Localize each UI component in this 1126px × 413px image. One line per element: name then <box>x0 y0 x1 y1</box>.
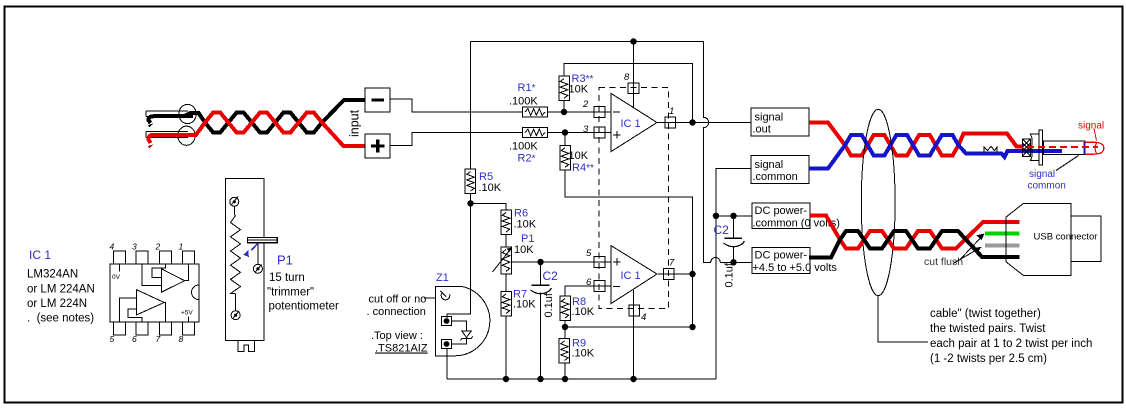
svg-text:or LM 224AN: or LM 224AN <box>27 284 95 296</box>
wire ground rail <box>447 378 716 380</box>
cable ellipse <box>861 109 895 295</box>
wire R6 to P1 <box>505 235 507 248</box>
junction R8 / R9 node <box>562 324 568 330</box>
audio plug flange <box>1039 130 1043 165</box>
svg-text:LM324AN: LM324AN <box>27 269 78 281</box>
svg-text:4: 4 <box>641 312 646 323</box>
wire P1 wiper to pin 5 <box>511 261 612 263</box>
wire top supply rail <box>471 41 704 43</box>
P1 wiper blue arrow <box>252 244 258 251</box>
svg-text:7: 7 <box>669 258 675 269</box>
svg-text:8: 8 <box>179 334 184 344</box>
junction pin 3 / R4 node <box>562 129 568 135</box>
DC power common box <box>752 203 810 229</box>
signal twisted pair blue wire <box>809 135 1062 169</box>
svg-text:the twisted pairs. Twist: the twisted pairs. Twist <box>930 323 1046 335</box>
svg-text:signal: signal <box>755 159 784 171</box>
svg-text:. connection: . connection <box>367 306 426 318</box>
svg-text:.100K: .100K <box>509 96 538 108</box>
svg-text:DC power-: DC power- <box>755 205 808 217</box>
USB connector plug <box>1071 216 1101 262</box>
wire pin 8 stem <box>633 42 635 108</box>
pin 4 <box>629 305 640 316</box>
junction ground at pin 4 <box>630 376 636 382</box>
pin 3 <box>594 127 605 138</box>
svg-text:R2*: R2* <box>518 153 536 165</box>
svg-text:C2: C2 <box>543 269 559 283</box>
svg-text:0.1uf: 0.1uf <box>724 262 736 287</box>
Z1 internal zener diode <box>452 321 467 344</box>
svg-text:10K: 10K <box>514 244 534 256</box>
svg-text:15 turn: 15 turn <box>269 272 305 284</box>
wire R1 to pin 2 <box>548 111 612 113</box>
svg-text:signal: signal <box>1078 121 1104 132</box>
svg-text:signal: signal <box>1029 169 1055 180</box>
resistor R5 <box>465 169 476 194</box>
input terminal minus box <box>365 88 390 112</box>
Z1 middle pin <box>444 318 450 324</box>
P1 trimmer drawing <box>225 179 263 352</box>
wire rail to R5 <box>470 42 472 170</box>
svg-text:6: 6 <box>586 277 592 288</box>
USB green wire <box>985 232 1020 236</box>
input probe red <box>146 126 195 148</box>
potentiometer P1 schematic <box>501 247 512 274</box>
signal common box <box>751 156 809 184</box>
op-amp U1B <box>611 246 657 304</box>
resistor R3 <box>559 76 570 101</box>
op-amp U1A <box>611 93 657 151</box>
DC twisted pair red wire <box>810 216 1020 249</box>
wire R8 to R9 <box>564 321 566 339</box>
svg-text:potentiometer: potentiometer <box>269 301 339 313</box>
wire P1 to R7 <box>505 274 507 292</box>
DC twisted pair black wire <box>809 231 1020 258</box>
svg-text:10K: 10K <box>569 150 589 162</box>
audio plug barrel <box>1044 141 1086 155</box>
svg-text:0V: 0V <box>112 274 121 281</box>
resistor R6 <box>501 210 512 235</box>
svg-text:.10K: .10K <box>572 306 595 318</box>
wire pin 6 to R8 <box>565 286 611 296</box>
svg-text:cut flush: cut flush <box>924 256 963 268</box>
wire Z1 bottom pin to rail <box>446 348 448 379</box>
svg-text:DC power-: DC power- <box>755 250 808 262</box>
svg-text:each pair at 1 to 2 twist per: each pair at 1 to 2 twist per inch <box>930 338 1092 350</box>
svg-text:"trimmer": "trimmer" <box>267 287 314 299</box>
wire DC power common <box>716 215 752 217</box>
wire R4 feedback to lower output <box>565 170 693 327</box>
svg-text:IC 1: IC 1 <box>621 118 641 130</box>
svg-text:R1*: R1* <box>518 82 536 94</box>
wire R5 junction <box>471 194 507 211</box>
svg-text:or LM 224N: or LM 224N <box>27 298 87 310</box>
svg-text:IC 1: IC 1 <box>29 248 51 262</box>
USB gray wire <box>985 244 1020 248</box>
svg-text:C2: C2 <box>714 223 730 237</box>
svg-text:6: 6 <box>132 334 137 344</box>
svg-text:.10K: .10K <box>479 182 502 194</box>
svg-text:.common: .common <box>753 171 798 183</box>
svg-text:4: 4 <box>110 242 115 252</box>
wire signal common to ground <box>716 169 751 380</box>
cable leader line <box>878 296 928 342</box>
wire op-amp output to signal out <box>657 122 751 124</box>
twisted pair input black wire <box>184 100 365 133</box>
svg-text:3: 3 <box>132 242 137 252</box>
svg-text:signal: signal <box>755 112 784 124</box>
svg-text:3: 3 <box>583 124 589 135</box>
wire R2 to pin 3 <box>548 132 612 134</box>
junction C2 bottom / +5V node <box>730 259 736 265</box>
Z1 voltage reference package <box>435 287 461 356</box>
Z1 top pin no-connect symbol <box>440 291 449 300</box>
signal twisted pair red wire <box>809 123 1024 156</box>
pin 6 <box>594 281 605 292</box>
svg-text:USB connector: USB connector <box>1034 232 1098 243</box>
wire R7 to ground rail <box>505 316 507 379</box>
Z1 bottom pin <box>444 341 450 347</box>
pin 2 <box>594 107 605 118</box>
resistor R7 <box>501 292 512 317</box>
svg-text:+5V: +5V <box>181 310 193 317</box>
junction +5V rail at pin 8 <box>630 38 636 44</box>
capacitor C2 right <box>725 237 743 239</box>
svg-text:cable" (twist together): cable" (twist together) <box>930 308 1041 320</box>
resistor R1 <box>523 107 548 117</box>
svg-text:P1: P1 <box>277 253 293 268</box>
audio plug tip <box>1085 142 1104 154</box>
resistor R4 <box>560 145 571 170</box>
cut flush arrows <box>961 239 980 259</box>
junction ground at R7 <box>503 376 509 382</box>
Z1 stub wire from note <box>424 297 435 299</box>
wire R3 feedback to output <box>564 64 693 123</box>
svg-text:Z1: Z1 <box>436 272 449 284</box>
svg-text:.10K: .10K <box>513 299 536 311</box>
audio plug back shell <box>1031 134 1040 160</box>
svg-text:R4**: R4** <box>572 162 594 174</box>
wire lower output pin 7 <box>658 273 693 275</box>
signal out box <box>751 108 809 136</box>
junction ground at C2 <box>537 376 543 382</box>
wire minus input to R1 <box>390 99 523 112</box>
P1 screw slot <box>248 237 278 242</box>
wire R9 to ground rail <box>564 363 566 379</box>
shield fold mark <box>984 147 997 154</box>
twisted pair input red wire <box>184 113 365 147</box>
junction feedback B node <box>689 324 695 330</box>
svg-text:common: common <box>1028 181 1066 192</box>
junction output A node <box>689 119 695 125</box>
pin 5 <box>594 257 605 268</box>
svg-text:. (see notes): . (see notes) <box>27 313 94 325</box>
svg-text:1: 1 <box>179 242 184 252</box>
svg-text:.10K: .10K <box>514 219 537 231</box>
junction R5 / R6 / Z1 node <box>467 200 473 206</box>
wire junction to Z1 middle pin <box>447 203 471 318</box>
junction output B node <box>689 271 695 277</box>
svg-text:.out: .out <box>753 124 771 136</box>
resistor R2 <box>523 128 548 138</box>
svg-text:.Top view :: .Top view : <box>371 330 423 342</box>
svg-text:+4.5 to +5.0 volts: +4.5 to +5.0 volts <box>753 262 838 274</box>
junction pin 2 / R3 node <box>561 109 567 115</box>
svg-text:2: 2 <box>582 99 589 110</box>
wire C2 left leads <box>540 262 542 379</box>
input terminal plus box <box>365 134 390 158</box>
svg-text:5: 5 <box>586 248 592 259</box>
wire R4 top to pin3 node <box>564 133 566 146</box>
svg-text:cut off or no: cut off or no <box>369 294 427 306</box>
svg-text:10K: 10K <box>569 84 589 96</box>
IC1 dashed box <box>599 88 669 309</box>
audio plug barrel tip joint <box>1083 142 1085 154</box>
svg-text:1: 1 <box>669 106 674 117</box>
pin 1 <box>665 117 676 128</box>
wire R3 bottom to pin2 node <box>563 101 565 112</box>
svg-text:8: 8 <box>624 72 630 83</box>
signal center conductor dashed <box>1016 146 1098 148</box>
wire pin 4 to ground rail <box>633 290 635 379</box>
pin 8 <box>628 83 639 94</box>
capacitor C2 left <box>532 284 550 286</box>
IC1 package drawing <box>110 251 199 335</box>
resistor R9 <box>559 339 570 364</box>
svg-text:input: input <box>348 109 362 137</box>
svg-text:.10K: .10K <box>572 348 595 360</box>
wire +5V supply from rail to DC power box (with hops) <box>704 42 752 263</box>
pin 7 <box>663 269 674 280</box>
svg-text:5: 5 <box>110 334 115 344</box>
USB connector body <box>1006 203 1071 275</box>
input probe black <box>146 104 196 127</box>
DC power plus box <box>752 248 810 274</box>
wire plus input to R2 <box>390 133 523 146</box>
junction P1 wiper / C2 node <box>537 259 543 265</box>
wire C2 right leads <box>733 216 735 262</box>
svg-text:2: 2 <box>155 242 161 252</box>
svg-text:IC 1: IC 1 <box>621 270 641 282</box>
junction ground at R9 <box>562 376 568 382</box>
svg-text:0.1uf: 0.1uf <box>543 292 555 317</box>
audio plug crimp hatch <box>1023 139 1031 157</box>
svg-text:(1 -2 twists per 2.5 cm): (1 -2 twists per 2.5 cm) <box>930 353 1047 365</box>
junction C2 top plate node <box>730 213 736 219</box>
wire R8 R9 junction to output <box>565 326 693 328</box>
svg-text:.100K: .100K <box>509 141 538 153</box>
junction signal common / DC common node <box>713 213 719 219</box>
svg-text:7: 7 <box>156 334 161 344</box>
resistor R8 <box>560 296 571 321</box>
svg-text:.TS821AIZ: .TS821AIZ <box>375 343 428 355</box>
